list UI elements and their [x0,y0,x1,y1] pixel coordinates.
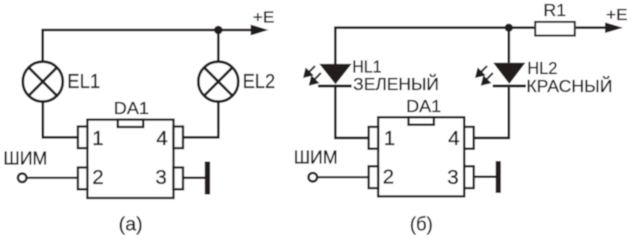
LED HL1 triangle [319,64,351,84]
lamp EL1 [23,62,63,102]
ground bar (left circuit) [205,162,210,195]
pin 1 stub (right chip) [369,127,379,149]
svg-text:+E: +E [253,9,275,26]
wire: EL1 down to pin 1 [43,102,79,138]
wire: terminal to pin 2 (right circuit) [318,176,370,178]
wire: HL1 down to pin 1 (right chip) [335,87,369,137]
svg-text:1: 1 [92,127,103,150]
svg-text:R1: R1 [543,0,566,20]
svg-text:2: 2 [92,166,103,189]
svg-text:1: 1 [384,127,395,150]
wire: pin 3 to ground (right circuit) [473,176,496,178]
svg-text:ШИМ: ШИМ [3,148,47,168]
pin 3 stub (right chip) [464,166,474,188]
LED HL1 light arrow lower [310,73,321,84]
chip key notch (right circuit) [409,117,434,124]
input terminal circle (left circuit) [18,174,27,183]
svg-text:+E: +E [606,7,627,24]
wire: left circuit top rail from EL1 up and right to +E arrow [43,30,251,62]
svg-text:КРАСНЫЙ: КРАСНЫЙ [526,76,612,96]
node junction (right circuit top rail) [505,24,513,32]
wire: EL2 down to pin 4 [183,102,219,138]
resistor R1 [535,22,575,36]
pin 4 stub (left chip) [174,127,184,149]
pin 2 stub (right chip) [369,166,379,188]
LED HL1 light arrow upper [304,66,315,77]
svg-text:EL2: EL2 [243,71,276,93]
svg-text:3: 3 [155,166,166,189]
ground bar (right circuit) [496,161,501,193]
input terminal circle (right circuit) [309,173,318,182]
wire: junction down to HL2 [507,28,510,63]
svg-text:3: 3 [447,166,458,189]
svg-text:(а): (а) [119,215,143,236]
svg-text:(б): (б) [410,215,433,236]
pin 3 stub (left chip) [174,168,184,190]
svg-text:2: 2 [383,166,394,189]
svg-text:4: 4 [448,127,459,150]
LED HL2 cathode bar [493,85,526,88]
wire: HL2 down to pin 4 (right chip) [473,87,509,137]
chip key notch (left circuit) [118,120,143,127]
LED HL2 light arrow upper [476,66,487,77]
wire: terminal to pin 2 (left circuit) [27,177,79,179]
+E arrow head (left circuit) [251,25,269,36]
svg-text:ЗЕЛЕНЫЙ: ЗЕЛЕНЫЙ [353,74,439,94]
+E arrow head (right circuit) [605,22,623,33]
pin 1 stub (left chip) [78,127,88,149]
pin 4 stub (right chip) [464,127,474,149]
svg-text:HL2: HL2 [527,58,557,78]
LED HL2 triangle [493,63,525,84]
svg-text:4: 4 [156,127,167,150]
svg-text:ШИМ: ШИМ [294,148,338,168]
pin 2 stub (left chip) [78,168,88,190]
svg-text:EL1: EL1 [67,71,100,93]
wire: R1 to +E arrow (right circuit) [576,26,606,29]
op-amp chip DA1 body (right circuit) [378,117,464,196]
svg-text:DA1: DA1 [406,96,441,116]
LED HL2 light arrow lower [482,73,493,84]
op-amp chip DA1 body (left circuit) [87,120,173,198]
LED HL1 cathode bar [318,85,352,88]
wire: right circuit top rail from HL1 up and right to R1 [335,28,534,64]
lamp EL2 [198,62,238,102]
wire: junction down to EL2 [217,30,220,62]
wire: pin 3 to ground (left circuit) [183,177,206,179]
node junction (left circuit top rail) [214,26,223,35]
svg-text:DA1: DA1 [114,98,149,118]
